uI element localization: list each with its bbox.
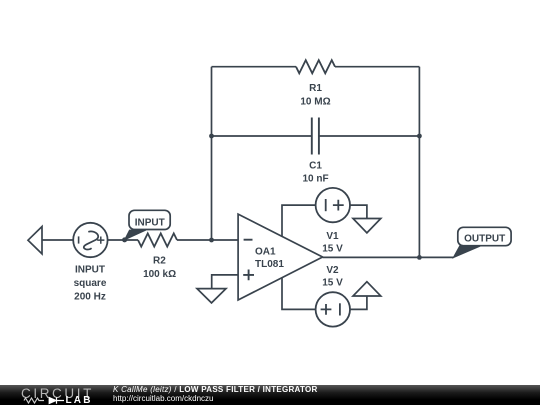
op-amp OA1 triangle [238, 214, 323, 300]
junction output/feedback [417, 255, 422, 260]
net flag INPUT text [135, 217, 165, 228]
footer title line [113, 385, 318, 394]
resistor R1 [296, 60, 335, 73]
logo resistor glyph [24, 398, 44, 403]
svg-text:V1: V1 [326, 231, 339, 242]
wire top row right [335, 66, 419, 68]
wire C1 row right [319, 135, 420, 137]
svg-text:INPUT: INPUT [75, 265, 105, 276]
C1 value labels [302, 160, 328, 184]
wire op-amp + input to ground [212, 275, 238, 289]
svg-text:TL081: TL081 [255, 259, 284, 270]
V1 plus sign [333, 200, 344, 211]
capacitor C1 plates [312, 118, 319, 155]
junction C1 right [417, 134, 422, 139]
wire top row left [212, 66, 297, 68]
ground (op-amp + input) [197, 289, 226, 303]
junction node A [209, 238, 214, 243]
V1 labels [322, 231, 343, 255]
wire V1 to ground [350, 205, 367, 218]
svg-text:10 MΩ: 10 MΩ [300, 96, 330, 107]
wire left feedback vertical [211, 67, 213, 240]
voltage source V1 circle [316, 188, 350, 222]
svg-text:R2: R2 [153, 256, 166, 267]
V2 plus sign [321, 304, 332, 315]
V2 minus bar [339, 303, 341, 315]
svg-text:15 V: 15 V [322, 244, 343, 255]
wire V- pin to V2 [282, 278, 316, 310]
voltage source V2 circle [316, 292, 350, 326]
wire V+ pin to V1 [282, 205, 316, 237]
svg-text:OUTPUT: OUTPUT [464, 234, 505, 245]
svg-text:10 nF: 10 nF [302, 174, 328, 185]
wire source to R2 [108, 239, 138, 241]
wire right feedback vertical [418, 67, 420, 258]
VIN minus terminal bar [78, 236, 80, 243]
svg-text:100 kΩ: 100 kΩ [143, 269, 176, 280]
R2 value labels [143, 256, 176, 280]
wire node A to op-amp inverting input [212, 239, 239, 241]
net flag INPUT junction dot [122, 237, 127, 242]
input port flag (left triangle) [28, 227, 42, 254]
net flag INPUT pointer [125, 230, 146, 240]
R1 value labels [300, 83, 330, 107]
ground (V2, pointing up) [353, 282, 381, 296]
footer url line [113, 394, 213, 403]
logo LAB text [66, 395, 93, 406]
V1 minus bar [325, 199, 327, 211]
V2 labels [322, 265, 343, 289]
svg-text:200 Hz: 200 Hz [74, 291, 106, 302]
VIN plus sign [97, 237, 104, 244]
svg-text:R1: R1 [309, 83, 322, 94]
op-amp name labels OA1 / TL081 [255, 247, 284, 271]
svg-text:square: square [74, 278, 107, 289]
wire R2 to node A [177, 239, 212, 241]
svg-text:15 V: 15 V [322, 277, 343, 288]
VIN label: INPUT / square / 200 Hz [74, 265, 107, 303]
net flag OUTPUT pointer [453, 246, 481, 258]
svg-text:INPUT: INPUT [135, 217, 165, 228]
footer bar [0, 385, 540, 406]
voltage source VIN circle [73, 223, 107, 257]
svg-text:V2: V2 [326, 265, 339, 276]
wire input port to source [42, 239, 73, 241]
net flag INPUT box [129, 210, 170, 229]
junction C1 left [209, 134, 214, 139]
circuitlab logo [21, 386, 94, 401]
net flag OUTPUT text [464, 234, 505, 245]
net flag OUTPUT box [458, 227, 511, 245]
resistor R2 [138, 233, 177, 246]
wire C1 row left [212, 135, 312, 137]
op-amp minus marker [244, 239, 253, 241]
wire op-amp output [323, 256, 454, 258]
svg-text:OA1: OA1 [255, 247, 276, 258]
op-amp plus marker [243, 270, 254, 281]
logo diode glyph [49, 397, 57, 404]
svg-text:C1: C1 [309, 160, 322, 171]
VIN square-wave glyph [84, 231, 98, 249]
wire V2 to ground flag [350, 296, 367, 309]
ground (V1) [353, 219, 381, 233]
